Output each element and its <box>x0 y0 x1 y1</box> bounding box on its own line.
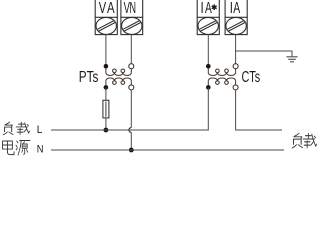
asterisk mark <box>212 4 217 10</box>
wire IA* to CT <box>207 35 209 66</box>
PT primary stubs <box>105 81 107 88</box>
CT secondary winding <box>208 69 235 75</box>
PT terminal circle top <box>129 64 134 69</box>
terminal IA <box>225 0 247 35</box>
CT right wire + L line right <box>236 90 282 130</box>
svg-text:PTs: PTs <box>79 69 99 86</box>
ground branch wire <box>236 51 292 56</box>
svg-text:I: I <box>201 0 204 17</box>
svg-text:L: L <box>37 124 43 136</box>
terminal IA* <box>197 0 219 35</box>
wire fuse to L line <box>105 118 107 130</box>
wire VN to PT <box>130 35 132 64</box>
L line left + CT left wire <box>51 87 208 130</box>
CT terminal circle bottom <box>233 85 238 90</box>
CT polarity dot top <box>206 64 211 69</box>
PT secondary winding <box>106 69 131 75</box>
junction dot fuse/L <box>104 128 109 133</box>
CT polarity dot bottom <box>206 85 211 90</box>
terminal VA <box>95 0 117 35</box>
label fu (load) right <box>292 133 302 148</box>
CT terminal circle top <box>233 64 238 69</box>
svg-text:A: A <box>233 0 240 17</box>
junction dot PT/N <box>129 148 134 153</box>
CT secondary stubs <box>207 66 209 73</box>
PT primary winding <box>106 78 131 84</box>
svg-text:N: N <box>37 143 44 155</box>
CT primary winding <box>208 78 235 84</box>
wire PT dot to fuse <box>105 87 107 100</box>
svg-text:V: V <box>99 0 107 17</box>
crossover hop at L line <box>129 128 131 133</box>
wire IA to CT <box>235 35 237 64</box>
svg-text:A: A <box>107 0 115 17</box>
wire PT circle to N line <box>130 90 132 128</box>
svg-text:A: A <box>205 0 212 17</box>
N line <box>51 149 284 151</box>
CT primary stubs <box>207 81 209 88</box>
svg-text:N: N <box>130 0 137 17</box>
wire VA to PT <box>105 35 107 66</box>
PT polarity dot bottom <box>104 85 109 90</box>
label zai (load) left <box>16 122 29 134</box>
svg-text:CTs: CTs <box>242 69 261 86</box>
label dian (power) left <box>3 141 14 155</box>
ground <box>286 57 297 62</box>
terminal VN <box>121 0 143 35</box>
PT terminal circle bottom <box>129 85 134 90</box>
label zai (load) right <box>303 133 316 148</box>
PT secondary stubs <box>105 66 107 73</box>
label fu (load) left <box>3 122 13 135</box>
label yuan (power) left <box>16 141 30 155</box>
PT polarity dot top <box>104 64 109 69</box>
fuse F1 <box>103 100 109 118</box>
